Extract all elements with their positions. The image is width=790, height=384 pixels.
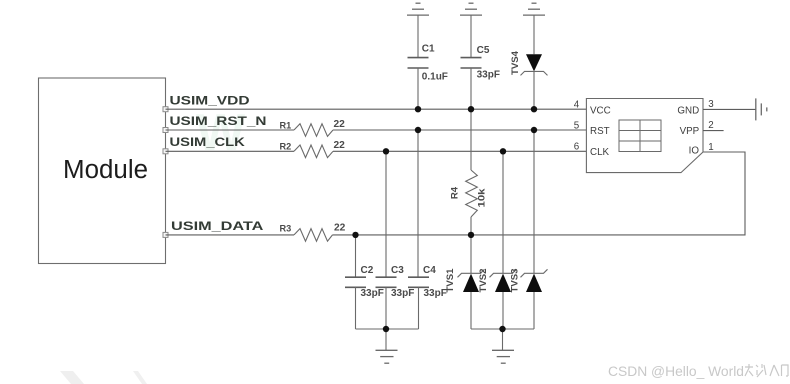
pin square USIM_CLK (163, 149, 168, 154)
svg-text:USIM_DATA: USIM_DATA (171, 219, 263, 233)
pin square USIM_DATA (163, 232, 168, 237)
capacitor C3 (376, 277, 397, 329)
svg-text:22: 22 (334, 119, 346, 130)
svg-text:33pF: 33pF (391, 288, 414, 299)
svg-text:USIM_RST_N: USIM_RST_N (170, 114, 267, 128)
top ground (above C1) (407, 3, 429, 15)
svg-text:10k: 10k (477, 188, 488, 208)
junction dot TVS rail ground (499, 326, 505, 332)
resistor R4 (466, 109, 478, 235)
wire USIM_VDD (166, 108, 587, 110)
svg-text:5: 5 (574, 120, 580, 131)
svg-text:0.1uF: 0.1uF (422, 72, 448, 83)
SIM card symbol (619, 120, 661, 152)
SIM connector U1 outline (586, 99, 703, 173)
svg-text:33pF: 33pF (477, 70, 500, 81)
wire VPP stub (703, 130, 724, 132)
wire CLK to TVS2 (502, 151, 504, 273)
wire USIM_CLK (left of R2) (166, 150, 295, 152)
wire USIM_DATA (left of R3) (166, 234, 295, 236)
module box (39, 78, 166, 264)
junction dot DATA/TVS1-R4 (468, 232, 474, 238)
wire USIM_RST_N (left of R1) (166, 129, 295, 131)
wire USIM_CLK (right of R2) (333, 150, 586, 152)
svg-text:USIM_VDD: USIM_VDD (170, 93, 250, 107)
svg-text:C3: C3 (391, 265, 404, 276)
svg-text:R2: R2 (280, 142, 292, 152)
wire DATA to TVS1 (470, 235, 472, 273)
svg-text:R4: R4 (450, 186, 461, 199)
TVS ground rail (471, 328, 534, 330)
svg-text:TVS4: TVS4 (510, 50, 521, 75)
junction dot RST/TVS3 (531, 127, 537, 133)
capacitor C4 (408, 277, 429, 329)
pin square USIM_VDD (163, 107, 168, 112)
svg-text:W: W (196, 104, 246, 162)
junction dot DATA/C2 (352, 232, 358, 238)
svg-text:C1: C1 (422, 43, 435, 54)
junction dot VDD/C5-R4 (468, 106, 474, 112)
svg-text:3: 3 (708, 99, 714, 110)
svg-text:VCC: VCC (590, 105, 611, 116)
svg-text:C2: C2 (361, 265, 374, 276)
wire USIM_DATA (right of R3 to IO pin) (333, 152, 746, 235)
capacitor C5 (461, 15, 482, 109)
svg-text:C5: C5 (477, 45, 490, 56)
svg-text:R1: R1 (280, 120, 292, 130)
capacitor C1 (408, 15, 429, 109)
resistor R3 (294, 229, 333, 242)
top ground (above C5) (460, 3, 482, 15)
svg-text:CLK: CLK (590, 147, 610, 158)
capacitor ground rail (356, 328, 419, 330)
svg-text:USIM_CLK: USIM_CLK (170, 135, 245, 149)
svg-text:1: 1 (708, 142, 713, 153)
top ground (above TVS4) (523, 3, 545, 15)
watermark CJK glyphs (745, 364, 788, 377)
svg-text:IO: IO (689, 145, 700, 156)
junction dot VDD/C1 (415, 106, 421, 112)
svg-text:CSDN @Hello_ World: CSDN @Hello_ World (608, 364, 744, 380)
svg-text:RST: RST (590, 126, 610, 137)
svg-text:VPP: VPP (680, 126, 700, 137)
ground (right, rotated) (756, 98, 767, 120)
resistor R1 (294, 124, 333, 137)
svg-text:TVS3: TVS3 (509, 269, 520, 293)
junction dot CLK/C3 (383, 148, 389, 154)
junction dot VDD/TVS4 (531, 106, 537, 112)
junction dot cap rail ground (383, 326, 389, 332)
capacitor C2 (345, 277, 366, 329)
pin square USIM_RST_N (163, 128, 168, 133)
wire DATA to C2 (355, 235, 357, 277)
junction dot RST/C4 (415, 127, 421, 133)
svg-text:22: 22 (334, 222, 346, 233)
wire GND pin 3 (703, 108, 756, 110)
resistor R2 (294, 145, 333, 158)
watermark shape bottom-left 1 (60, 371, 84, 384)
svg-text:4: 4 (574, 100, 580, 111)
junction dot CLK/TVS2 (500, 148, 506, 154)
ground (TVS rail) (492, 329, 514, 363)
svg-text:R3: R3 (280, 224, 292, 234)
svg-text:6: 6 (574, 142, 580, 153)
wire USIM_RST_N (right of R1) (333, 129, 586, 131)
svg-text:22: 22 (334, 140, 346, 151)
svg-text:TVS1: TVS1 (445, 268, 456, 293)
wire CLK to C3 (385, 151, 387, 277)
wire RST to TVS3 (533, 130, 535, 273)
svg-text:Module: Module (63, 156, 148, 184)
svg-text:GND: GND (677, 105, 699, 116)
TVS diode TVS1 (458, 269, 485, 329)
TVS diode TVS3 (521, 269, 548, 329)
wire RST to C4 (417, 130, 419, 277)
svg-text:C4: C4 (423, 265, 436, 276)
watermark shape bottom-left 2 (133, 371, 147, 384)
svg-text:33pF: 33pF (424, 288, 447, 299)
ground (capacitor rail) (376, 329, 398, 363)
svg-text:TVS2: TVS2 (478, 269, 489, 293)
svg-text:2: 2 (708, 120, 713, 131)
TVS diode TVS2 (490, 269, 517, 329)
svg-text:33pF: 33pF (361, 288, 384, 299)
TVS diode TVS4 (521, 15, 548, 109)
